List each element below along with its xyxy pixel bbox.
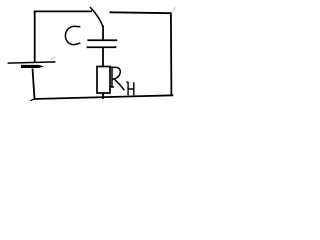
wire top rail right segment: [110, 11, 172, 14]
wire right side: [170, 13, 173, 96]
wire capacitor top lead: [102, 26, 104, 41]
battery B1 thick plate: [21, 65, 44, 68]
switch S1 blade: [90, 7, 103, 27]
capacitor C1 bottom plate: [87, 46, 117, 48]
wire resistor bottom stub: [102, 93, 104, 99]
resistor R_H body: [97, 67, 110, 94]
capacitor C1 top plate: [87, 39, 117, 41]
wire left side upper: [34, 11, 36, 63]
wire bottom-left corner spur: [30, 99, 34, 101]
wire bottom rail: [34, 95, 173, 99]
label H subscript: [127, 82, 134, 95]
wire top rail left segment: [35, 11, 92, 13]
label R: [110, 67, 124, 90]
label C: [65, 26, 79, 44]
battery B1 thin plate: [8, 62, 56, 63]
wire left side lower: [33, 69, 35, 99]
faint tick above top-right corner: [172, 8, 175, 12]
wire capacitor bottom lead: [102, 48, 104, 67]
faint pencil tail near battery thin plate right end: [51, 57, 56, 59]
